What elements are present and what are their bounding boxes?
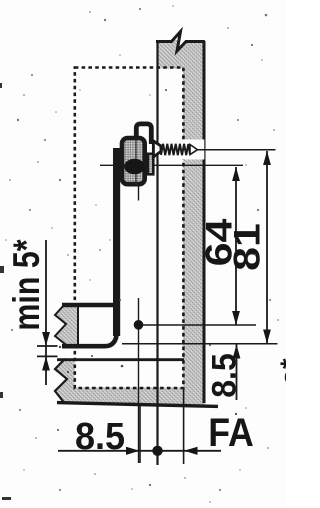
bottom dimension line [58, 450, 221, 452]
drawer bottom piece (hatched, zigzag break left) [55, 305, 78, 347]
svg-text:8.5: 8.5 [205, 353, 243, 398]
vertical centerline lower segment [138, 298, 140, 463]
rivet dot [134, 320, 144, 330]
small bracket box [148, 154, 154, 175]
svg-text:min 5*: min 5* [6, 239, 48, 331]
81 bottom reference line (flange bottom) [122, 343, 278, 345]
runner web and bottom flange [62, 331, 117, 346]
81 dimension line [266, 151, 268, 344]
svg-text:FA: FA [208, 411, 254, 455]
screw threads [161, 144, 190, 155]
runner top flange [62, 303, 119, 307]
svg-text:o*: o* [275, 358, 286, 385]
81 top reference line (screw axis) [198, 149, 276, 151]
panel top edge with break notch [176, 29, 188, 53]
svg-text:81: 81 [227, 223, 268, 271]
panel left edge [156, 40, 158, 465]
screw tip taper [190, 145, 198, 155]
white cut-out of dashed mounting zone [75, 69, 184, 388]
roller body [122, 138, 145, 184]
extension line: hole centerline bottom [139, 404, 141, 463]
64 dimension line [235, 167, 237, 325]
bottom panel top edge [57, 358, 184, 361]
vertical centerline upper segment [138, 187, 140, 201]
roller pivot blob [124, 159, 145, 174]
panel right edge [203, 41, 206, 403]
min5 dimension line [45, 240, 47, 385]
64 bottom reference line [139, 324, 257, 326]
screw head [153, 141, 161, 157]
svg-text:8.5: 8.5 [75, 414, 125, 457]
cabinet side panel (hatched) [157, 40, 206, 406]
rail hook [136, 124, 151, 144]
min5 upper extension tick [37, 345, 58, 347]
min5 lower extension tick [37, 355, 58, 357]
extension line: panel front face [157, 404, 159, 465]
cabinet bottom panel (hatched, zigzag break left) [55, 359, 205, 406]
extension line: drawer front plane (FA) [183, 388, 185, 464]
horizontal centerline (roller axis, 64 ref) [100, 164, 243, 166]
white clearing band for screw through panel [159, 140, 205, 160]
bottom panel bottom edge [57, 403, 218, 407]
dashed mounting-zone rectangle [75, 68, 184, 389]
8.5 vertical dimension [236, 345, 238, 401]
